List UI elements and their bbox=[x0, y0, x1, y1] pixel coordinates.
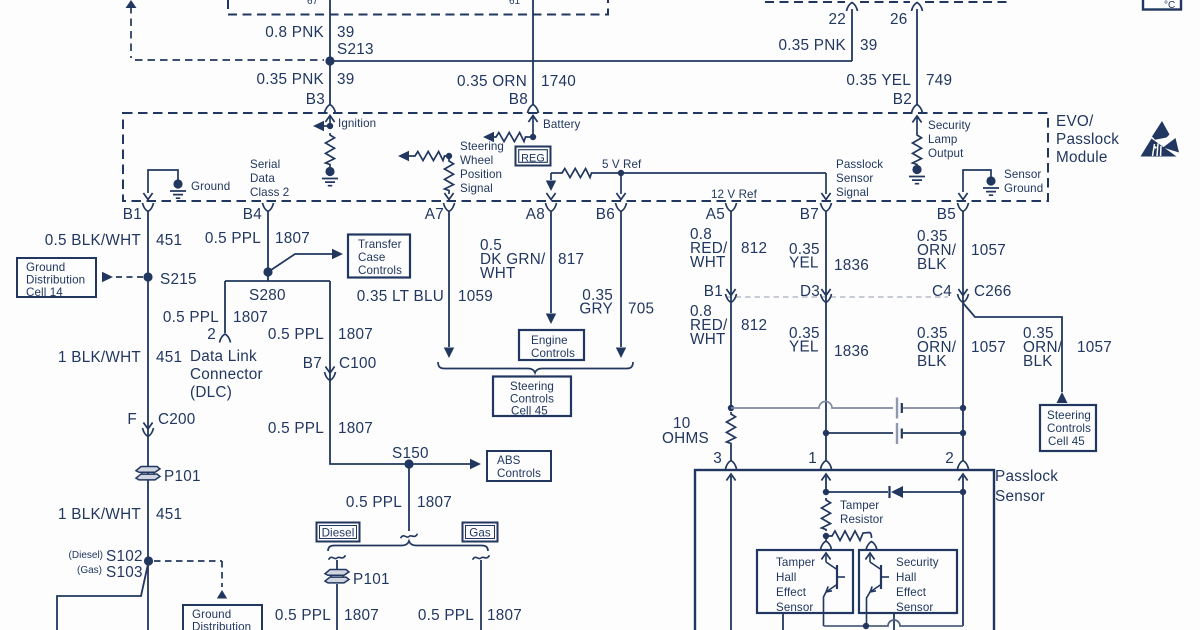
svg-text:0.5 PPL: 0.5 PPL bbox=[205, 230, 261, 247]
svg-text:Sensor: Sensor bbox=[896, 601, 933, 614]
Engine Controls box bbox=[519, 330, 584, 360]
top-right connector box C bbox=[1143, 0, 1181, 11]
ignition arrow up bbox=[325, 116, 334, 123]
svg-text:Ignition: Ignition bbox=[338, 117, 376, 130]
svg-text:WHT: WHT bbox=[690, 254, 726, 271]
label Serial Data Class 2 bbox=[250, 158, 289, 199]
svg-text:(Gas): (Gas) bbox=[77, 565, 102, 576]
arrow to ABS controls bbox=[470, 459, 481, 469]
battery node bbox=[530, 134, 536, 140]
svg-text:B8: B8 bbox=[509, 91, 528, 108]
label 0.35 ORN/ BLK 1057 row1 bbox=[917, 228, 1006, 273]
label 0.35 YEL 1836 row2 bbox=[789, 325, 869, 360]
svg-text:Cell 14: Cell 14 bbox=[26, 286, 63, 299]
svg-text:EVO/: EVO/ bbox=[1056, 113, 1094, 130]
svg-text:1 BLK/WHT: 1 BLK/WHT bbox=[58, 349, 141, 366]
wire B5 column bbox=[962, 212, 964, 460]
battery resistor to left arrow bbox=[527, 136, 533, 138]
ESD sensitive symbol bbox=[1141, 121, 1180, 157]
5V node to B6 bbox=[618, 170, 624, 176]
pin B2 clip bbox=[912, 105, 923, 114]
dashed link to ground distribution bbox=[154, 561, 222, 587]
svg-text:B1: B1 bbox=[704, 283, 723, 300]
svg-text:Steering: Steering bbox=[460, 140, 504, 153]
security box bottom stub bbox=[893, 613, 895, 630]
svg-text:0.5 PPL: 0.5 PPL bbox=[418, 607, 474, 624]
svg-text:B6: B6 bbox=[596, 206, 615, 223]
svg-text:1057: 1057 bbox=[971, 339, 1006, 356]
svg-text:YEL: YEL bbox=[789, 339, 819, 356]
module bottom pin clips bbox=[143, 203, 154, 212]
svg-text:B7: B7 bbox=[303, 355, 322, 372]
transistor Q1 tamper bbox=[821, 553, 845, 626]
svg-text:0.5 PPL: 0.5 PPL bbox=[346, 494, 402, 511]
diesel branch wire bbox=[336, 560, 338, 570]
Transfer Case Controls box bbox=[348, 235, 410, 278]
svg-text:0.5 PPL: 0.5 PPL bbox=[275, 607, 331, 624]
Tamper Hall Effect Sensor box bbox=[757, 550, 853, 614]
ignition ground bbox=[322, 179, 338, 186]
splice S280 bbox=[263, 267, 272, 276]
svg-text:Wheel: Wheel bbox=[460, 154, 493, 167]
diode row node left bbox=[823, 489, 829, 495]
wire B8 column from top box bbox=[532, 0, 534, 104]
arrow from box to S215 bbox=[102, 272, 113, 282]
svg-text:Position: Position bbox=[460, 168, 502, 181]
svg-text:Battery: Battery bbox=[543, 118, 581, 131]
svg-text:ABS: ABS bbox=[497, 454, 521, 467]
wire pin22 horizontal to S213 bbox=[330, 60, 852, 62]
svg-text:A8: A8 bbox=[526, 206, 545, 223]
svg-text:Ground: Ground bbox=[26, 261, 65, 274]
svg-text:Signal: Signal bbox=[460, 182, 493, 195]
svg-text:0.35 LT BLU: 0.35 LT BLU bbox=[357, 288, 444, 305]
diode row node right bbox=[960, 489, 966, 495]
10 ohms resistor node bbox=[728, 405, 734, 411]
svg-text:Transfer: Transfer bbox=[358, 238, 402, 251]
svg-text:B5: B5 bbox=[937, 206, 956, 223]
svg-text:Module: Module bbox=[1056, 149, 1108, 166]
svg-text:Gas: Gas bbox=[469, 527, 491, 540]
Ground Distribution box bottom bbox=[183, 605, 262, 630]
svg-text:1807: 1807 bbox=[344, 607, 379, 624]
wire down to B7 passlock sensor signal bbox=[825, 173, 827, 194]
Steering Controls Cell 45 box bbox=[493, 377, 571, 418]
svg-text:705: 705 bbox=[628, 301, 654, 318]
svg-text:3: 3 bbox=[713, 450, 722, 467]
label 0.8 RED/ WHT 812 row1 bbox=[690, 226, 767, 271]
svg-text:Controls: Controls bbox=[531, 347, 575, 360]
svg-text:B4: B4 bbox=[243, 206, 262, 223]
svg-text:Cell 45: Cell 45 bbox=[1048, 435, 1085, 448]
svg-text:1740: 1740 bbox=[541, 73, 576, 90]
svg-text:Case: Case bbox=[358, 251, 385, 264]
svg-text:Sensor: Sensor bbox=[995, 488, 1045, 505]
pin 2 wire inside bbox=[958, 474, 967, 481]
pin 22 clip bbox=[847, 3, 858, 12]
svg-text:1 BLK/WHT: 1 BLK/WHT bbox=[58, 506, 141, 523]
diode bbox=[888, 486, 890, 498]
svg-text:812: 812 bbox=[741, 317, 767, 334]
svg-text:Steering: Steering bbox=[1047, 409, 1091, 422]
splice S150 bbox=[404, 459, 413, 468]
svg-text:Engine: Engine bbox=[531, 334, 568, 347]
gas branch break bbox=[473, 555, 490, 559]
gas branch wire bbox=[480, 560, 482, 630]
svg-text:YEL: YEL bbox=[789, 255, 819, 272]
label 0.8 RED/ WHT 812 row2 bbox=[690, 303, 767, 348]
branch wire from C266 to steering controls bbox=[963, 303, 1062, 392]
sensor pin 1 bbox=[825, 433, 827, 460]
svg-text:Signal: Signal bbox=[836, 186, 869, 199]
arrow B6 down bbox=[616, 348, 626, 359]
svg-text:OHMS: OHMS bbox=[662, 430, 709, 447]
svg-text:Security: Security bbox=[896, 556, 939, 569]
svg-text:0.5 BLK/WHT: 0.5 BLK/WHT bbox=[45, 232, 141, 249]
label Data Link Connector (DLC) bbox=[190, 348, 263, 401]
svg-text:S215: S215 bbox=[160, 271, 197, 288]
svg-text:39: 39 bbox=[860, 37, 878, 54]
svg-text:749: 749 bbox=[926, 72, 952, 89]
svg-text:0.5 PPL: 0.5 PPL bbox=[268, 326, 324, 343]
svg-text:BLK: BLK bbox=[1023, 353, 1053, 370]
pin 3 wire inside bbox=[726, 474, 735, 481]
svg-text:451: 451 bbox=[156, 506, 182, 523]
svg-text:C200: C200 bbox=[158, 411, 196, 428]
Ground Distribution Cell 14 box bbox=[17, 258, 96, 299]
svg-text:°C: °C bbox=[1164, 0, 1175, 11]
svg-text:Class 2: Class 2 bbox=[250, 186, 289, 199]
svg-text:A7: A7 bbox=[425, 206, 444, 223]
diode wire bbox=[826, 491, 888, 493]
security lamp ground bbox=[912, 165, 921, 174]
svg-text:61: 61 bbox=[509, 0, 521, 7]
svg-text:B2: B2 bbox=[893, 91, 912, 108]
svg-text:Cell 45: Cell 45 bbox=[511, 405, 548, 418]
wire B7 column bbox=[825, 212, 827, 433]
svg-text:Passlock: Passlock bbox=[836, 158, 883, 171]
wire A8 column bbox=[550, 212, 552, 313]
tamper resistor bottom node bbox=[823, 533, 829, 539]
svg-text:Resistor: Resistor bbox=[840, 513, 883, 526]
svg-text:S213: S213 bbox=[337, 41, 374, 58]
svg-text:Tamper: Tamper bbox=[776, 556, 815, 569]
pin 26 clip bbox=[912, 3, 923, 12]
svg-text:1057: 1057 bbox=[971, 242, 1006, 259]
svg-text:WHT: WHT bbox=[480, 265, 516, 282]
label Passlock Sensor Signal bbox=[836, 158, 883, 199]
svg-text:0.5 PPL: 0.5 PPL bbox=[268, 420, 324, 437]
splice S213 bbox=[325, 56, 334, 65]
wire right leg down to S150 row bbox=[330, 281, 470, 464]
svg-text:0.35 PNK: 0.35 PNK bbox=[779, 37, 847, 54]
svg-text:0.8 PNK: 0.8 PNK bbox=[265, 24, 324, 41]
svg-text:B1: B1 bbox=[123, 206, 142, 223]
wire A5 column bbox=[730, 212, 732, 408]
Diesel box bbox=[317, 523, 360, 542]
REG box bbox=[516, 147, 551, 166]
svg-text:Passlock: Passlock bbox=[1056, 131, 1119, 148]
horizontal resistor bbox=[826, 531, 872, 541]
wire S150 down bbox=[408, 464, 410, 531]
Gas box bbox=[463, 523, 498, 542]
svg-text:P101: P101 bbox=[353, 571, 390, 588]
svg-text:C4: C4 bbox=[932, 283, 952, 300]
sws resistor down bbox=[445, 159, 454, 192]
security lamp output arrow up bbox=[912, 116, 921, 123]
svg-text:1057: 1057 bbox=[1077, 339, 1112, 356]
wire break symbol bbox=[401, 534, 418, 538]
svg-text:0.35 ORN: 0.35 ORN bbox=[457, 73, 527, 90]
svg-text:5 V Ref: 5 V Ref bbox=[602, 158, 642, 171]
svg-text:Diesel: Diesel bbox=[322, 527, 355, 540]
pin B8 clip bbox=[528, 105, 539, 114]
capacitor line 1 (gray) bbox=[731, 402, 893, 408]
label 0.35 YEL 1836 row1 bbox=[789, 241, 869, 274]
sws arrow to pin A7 bbox=[444, 193, 453, 200]
svg-text:Passlock: Passlock bbox=[995, 468, 1058, 485]
splice S215 bbox=[143, 272, 152, 281]
dashed branch arrow top left bbox=[130, 6, 132, 58]
arrow A7 down bbox=[444, 348, 454, 359]
svg-text:1836: 1836 bbox=[834, 343, 869, 360]
svg-text:Output: Output bbox=[928, 147, 964, 160]
label Tamper Resistor bbox=[840, 499, 883, 526]
wire A7 column bbox=[448, 212, 450, 347]
svg-text:0.35 YEL: 0.35 YEL bbox=[846, 72, 911, 89]
svg-text:Steering: Steering bbox=[510, 380, 554, 393]
svg-text:B3: B3 bbox=[306, 91, 325, 108]
svg-text:Data Link: Data Link bbox=[190, 348, 257, 365]
svg-text:Ground: Ground bbox=[191, 180, 230, 193]
label 0.35 ORN/ BLK 1057 row2 bbox=[917, 325, 1006, 370]
svg-text:1: 1 bbox=[808, 450, 817, 467]
svg-text:2: 2 bbox=[207, 326, 216, 343]
svg-text:S280: S280 bbox=[249, 287, 286, 304]
svg-text:Distribution: Distribution bbox=[192, 621, 251, 630]
svg-text:(Diesel): (Diesel) bbox=[69, 550, 103, 561]
svg-text:A5: A5 bbox=[706, 206, 725, 223]
capacitor 1 plates bbox=[896, 398, 898, 419]
svg-text:BLK: BLK bbox=[917, 353, 947, 370]
arrow to transfer case controls bbox=[268, 254, 333, 272]
svg-text:Hall: Hall bbox=[776, 571, 796, 584]
svg-text:812: 812 bbox=[741, 240, 767, 257]
svg-text:Sensor: Sensor bbox=[836, 172, 873, 185]
svg-text:1836: 1836 bbox=[834, 257, 869, 274]
svg-text:1807: 1807 bbox=[338, 326, 373, 343]
wire from pin 26 down to B2 bbox=[916, 9, 918, 104]
label Sensor Ground bbox=[1004, 168, 1043, 195]
svg-text:1807: 1807 bbox=[417, 494, 452, 511]
svg-text:Sensor: Sensor bbox=[776, 601, 813, 614]
tamper resistor bbox=[822, 498, 831, 531]
svg-text:451: 451 bbox=[156, 349, 182, 366]
svg-text:Ground: Ground bbox=[1004, 182, 1043, 195]
Passlock Sensor box bbox=[695, 470, 994, 630]
wire from pin 22 down bbox=[851, 9, 853, 61]
ignition left arrow bbox=[318, 125, 330, 127]
diesel branch break bbox=[329, 555, 346, 559]
svg-text:C100: C100 bbox=[339, 355, 377, 372]
svg-text:B7: B7 bbox=[800, 206, 819, 223]
svg-text:39: 39 bbox=[337, 71, 355, 88]
svg-text:C266: C266 bbox=[974, 283, 1012, 300]
Steering Controls Cell 45 box right bbox=[1040, 405, 1096, 451]
svg-text:1059: 1059 bbox=[458, 288, 493, 305]
svg-text:1807: 1807 bbox=[487, 607, 522, 624]
label Passlock Sensor bbox=[995, 468, 1058, 505]
DLC goalpost wires bbox=[225, 272, 330, 333]
svg-text:Effect: Effect bbox=[896, 586, 927, 599]
svg-text:Connector: Connector bbox=[190, 366, 263, 383]
10 ohms resistor bbox=[727, 412, 736, 445]
Security Hall Effect Sensor box bbox=[859, 550, 957, 614]
wire B4 column bbox=[267, 212, 269, 272]
svg-text:Ground: Ground bbox=[192, 608, 231, 621]
top right dashed connector edge bbox=[765, 1, 1012, 3]
module name EVO/Passlock Module bbox=[1056, 113, 1119, 166]
svg-text:67: 67 bbox=[307, 0, 319, 7]
wire diagonal branch from S103 bbox=[57, 564, 148, 630]
ignition node bbox=[327, 123, 333, 129]
sws node bbox=[446, 153, 452, 159]
label Steering Wheel Position Signal bbox=[460, 140, 504, 195]
svg-text:2: 2 bbox=[945, 450, 954, 467]
clip to security hall sensor bbox=[866, 542, 877, 551]
arrow to steering controls cell 45 bbox=[1057, 392, 1068, 403]
svg-text:12 V Ref: 12 V Ref bbox=[711, 188, 758, 201]
svg-text:REG: REG bbox=[521, 153, 545, 165]
ABS Controls box bbox=[487, 451, 551, 481]
svg-text:P101: P101 bbox=[164, 468, 201, 485]
emitter bus with hop bbox=[824, 620, 964, 626]
label 0.35 ORN/ BLK 1057 right branch bbox=[1023, 325, 1112, 370]
label 0.35 GRY 705 bbox=[579, 287, 654, 318]
svg-text:39: 39 bbox=[337, 24, 355, 41]
svg-text:Lamp: Lamp bbox=[928, 133, 957, 146]
svg-text:F: F bbox=[127, 411, 137, 428]
tamper box bottom stub bbox=[782, 613, 784, 630]
pin 1 wire inside bbox=[821, 474, 830, 481]
ignition resistor bbox=[326, 133, 335, 166]
steering controls brace bbox=[438, 362, 633, 373]
svg-text:Controls: Controls bbox=[1047, 422, 1091, 435]
svg-text:GRY: GRY bbox=[579, 301, 613, 318]
svg-text:0.5 PPL: 0.5 PPL bbox=[163, 309, 219, 326]
label Security Lamp Output bbox=[928, 119, 971, 160]
svg-text:1807: 1807 bbox=[338, 420, 373, 437]
arrow to ground distribution box bbox=[217, 590, 227, 599]
svg-text:22: 22 bbox=[828, 11, 846, 28]
svg-text:Serial: Serial bbox=[250, 158, 280, 171]
clip to tamper hall sensor bbox=[825, 536, 827, 541]
svg-text:Controls: Controls bbox=[358, 264, 402, 277]
svg-text:Effect: Effect bbox=[776, 586, 807, 599]
svg-text:26: 26 bbox=[890, 11, 908, 28]
svg-text:S102: S102 bbox=[106, 548, 143, 565]
svg-text:Tamper: Tamper bbox=[840, 499, 879, 512]
wire B1 column main left bbox=[147, 212, 149, 630]
5V ref circuit at A8 bbox=[550, 173, 552, 180]
pin B3 clip bbox=[325, 105, 336, 114]
wire B6 column bbox=[620, 212, 622, 347]
steering wheel position signal: left arrow resistor bbox=[398, 151, 409, 161]
svg-text:1807: 1807 bbox=[233, 309, 268, 326]
capacitor line 2 bbox=[823, 430, 829, 436]
diesel/gas split brace bbox=[328, 541, 488, 551]
svg-text:817: 817 bbox=[558, 251, 584, 268]
svg-text:S150: S150 bbox=[392, 445, 429, 462]
security lamp resistor bbox=[913, 133, 922, 166]
svg-text:Data: Data bbox=[250, 172, 275, 185]
splice S102/S103 bbox=[144, 556, 153, 565]
svg-text:Hall: Hall bbox=[896, 571, 916, 584]
svg-text:D3: D3 bbox=[800, 283, 820, 300]
top connector dashed box (partial, cut at top) bbox=[228, 0, 608, 15]
grommet P101 diesel bbox=[325, 570, 349, 583]
svg-text:0.35 PNK: 0.35 PNK bbox=[257, 71, 325, 88]
svg-text:1807: 1807 bbox=[275, 230, 310, 247]
svg-text:451: 451 bbox=[156, 232, 182, 249]
grommet P101 left bbox=[136, 467, 160, 480]
svg-text:Controls: Controls bbox=[497, 467, 541, 480]
svg-text:Sensor: Sensor bbox=[1004, 168, 1041, 181]
EVO/Passlock module dashed box bbox=[123, 113, 1048, 201]
svg-text:S103: S103 bbox=[106, 564, 143, 581]
connector C266 dashed line bbox=[726, 296, 948, 298]
svg-text:Security: Security bbox=[928, 119, 971, 132]
emitter bus junction bbox=[863, 623, 869, 629]
wire B3 column from top box bbox=[329, 0, 331, 104]
sensor ground at B5 bbox=[963, 170, 991, 192]
battery arrow up bbox=[528, 116, 537, 123]
svg-text:WHT: WHT bbox=[690, 331, 726, 348]
svg-text:(DLC): (DLC) bbox=[190, 384, 232, 401]
svg-text:BLK: BLK bbox=[917, 256, 947, 273]
transistor Q2 security bbox=[865, 553, 889, 626]
svg-text:Distribution: Distribution bbox=[26, 274, 85, 287]
capacitor 2 plates bbox=[896, 423, 898, 444]
internal ground at B1 bbox=[148, 170, 178, 193]
label 0.5 DK GRN/ WHT 817 bbox=[480, 237, 584, 282]
ignition ground node bbox=[329, 166, 331, 168]
arrow A8 into engine controls bbox=[546, 314, 556, 325]
